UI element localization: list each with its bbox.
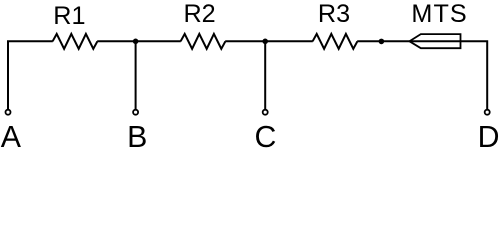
wire R2-to-R3 <box>225 40 313 42</box>
wire R1-to-R2 <box>97 40 181 42</box>
svg-text:R2: R2 <box>183 0 215 28</box>
terminal A <box>6 110 11 115</box>
svg-text:C: C <box>254 121 276 150</box>
svg-text:A: A <box>1 121 22 150</box>
svg-text:B: B <box>127 121 147 150</box>
svg-text:MTS: MTS <box>411 0 467 28</box>
terminal B <box>133 110 138 115</box>
terminal D <box>485 110 490 115</box>
terminal C <box>263 110 268 115</box>
svg-text:R3: R3 <box>318 0 350 28</box>
svg-text:D: D <box>478 121 500 150</box>
junction node B <box>133 39 139 45</box>
wire C vertical <box>264 41 266 109</box>
resistor R2 <box>181 34 226 49</box>
junction before MTS <box>379 39 385 45</box>
wire B vertical <box>135 41 137 109</box>
svg-text:R1: R1 <box>53 2 85 30</box>
thermal switch MTS body <box>410 34 461 48</box>
resistor R1 <box>53 34 98 49</box>
wire R3-to-D through MTS <box>357 41 487 109</box>
resistor R3 <box>313 34 358 49</box>
junction node C <box>262 39 268 45</box>
wire A-to-R1 with left drop corner <box>8 41 53 109</box>
